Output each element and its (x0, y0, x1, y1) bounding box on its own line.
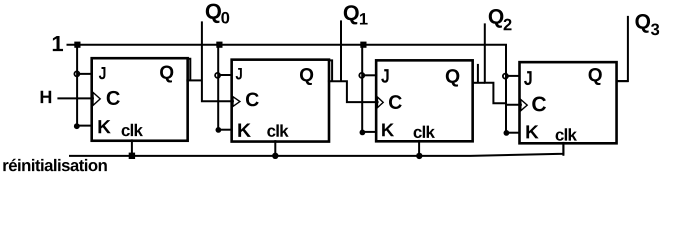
node Q1 subscript (360, 13, 368, 24)
U3 pin label clk (414, 126, 435, 138)
wire 1-rail (67, 44, 508, 46)
node H (clock) label (41, 91, 52, 103)
junction reset rail at U2 (272, 153, 278, 159)
junction 1-rail to FF1 feed (74, 42, 80, 48)
junction 1-rail to FF3 feed (360, 42, 366, 48)
wire Q riser U3 (477, 64, 479, 83)
U3 clock input triangle (377, 97, 383, 108)
wire Q output stub U2 (328, 81, 379, 102)
wire J input U1 (77, 73, 93, 75)
U1 pin label Q (160, 66, 173, 83)
U3 pin label C (389, 95, 402, 109)
U2 pin label J (236, 68, 242, 80)
wire K input U1 (77, 125, 93, 127)
junction dot at U4 K (504, 130, 510, 136)
wire clk U4 to reset rail (562, 142, 564, 156)
wire Q2 net (485, 23, 522, 104)
U1 clock input triangle (93, 92, 100, 105)
wire K input U4 (506, 132, 520, 134)
U4 pin label K (526, 125, 538, 138)
node Q0 subscript (221, 12, 229, 24)
junction ring at U2 J (215, 73, 220, 78)
node 1 (logic high) label (53, 36, 63, 51)
wire Q riser U2 (328, 60, 332, 81)
junction ring at U1 J (74, 71, 79, 76)
wire feed drop FF1 (76, 45, 78, 127)
junction ring at U3 J (359, 73, 364, 78)
wire Q output stub U4 (616, 80, 628, 82)
wire feed drop FF3 (361, 45, 363, 133)
wire J input U4 (505, 75, 520, 77)
U2 pin label K (238, 123, 251, 136)
wire reset rail (69, 143, 563, 156)
JK flip-flop U4 body (520, 62, 617, 143)
U4 pin label C (532, 97, 546, 112)
junction dot at U3 K (360, 130, 366, 136)
wire clk U3 to reset rail (418, 140, 420, 156)
node Q0 label (206, 4, 221, 24)
wire K input U2 (218, 129, 232, 131)
wire feed drop FF2 (217, 45, 219, 130)
node Q2 label (489, 9, 504, 28)
wire Q riser U1 (187, 59, 191, 81)
U2 pin label clk (267, 124, 288, 136)
wire feed drop FF4 (505, 45, 507, 133)
JK flip-flop U3 body (376, 60, 473, 141)
U2 clock input triangle (233, 97, 240, 107)
U2 pin label Q (300, 68, 313, 85)
junction reset rail at U3 (416, 153, 422, 159)
wire Q output stub U3 (472, 82, 485, 84)
junction dot at U2 K (216, 127, 222, 133)
U4 pin label J (524, 71, 532, 85)
U3 pin label J (381, 69, 388, 83)
wire J input U3 (362, 74, 377, 76)
U3 pin label Q (446, 69, 460, 86)
wire K input U3 (362, 131, 377, 133)
node Q3 label (635, 14, 650, 33)
wire clk U1 to reset rail (131, 139, 133, 155)
wire H to U1 C input (57, 97, 94, 99)
U1 pin label K (98, 120, 110, 133)
U1 pin label clk (122, 124, 143, 136)
wire clk U2 to reset rail (274, 140, 276, 156)
wire Q0 net (202, 21, 234, 101)
JK flip-flop U1 body (92, 58, 188, 141)
U4 pin label clk (556, 128, 577, 140)
JK flip-flop U2 body (232, 60, 329, 142)
node reinitialisation label (3, 159, 106, 171)
U1 pin label C (107, 91, 120, 105)
node Q1 label (344, 5, 359, 24)
U3 pin label K (382, 123, 394, 136)
junction 1-rail to FF2 feed (216, 42, 222, 48)
U2 pin label C (246, 92, 259, 106)
junction reset rail at U1 (129, 153, 135, 159)
U4 pin label Q (589, 68, 602, 85)
junction dot at U1 K (74, 123, 80, 129)
junction ring at U4 J (503, 74, 508, 79)
node Q3 subscript (651, 23, 659, 35)
wire J input U2 (218, 74, 233, 76)
U4 clock input triangle (521, 100, 527, 111)
U1 pin label J (99, 67, 106, 79)
wire Q output stub U1 (186, 79, 202, 81)
wire Q1 net (340, 20, 342, 81)
wire Q3 net (617, 16, 628, 81)
node Q2 subscript (504, 19, 512, 31)
